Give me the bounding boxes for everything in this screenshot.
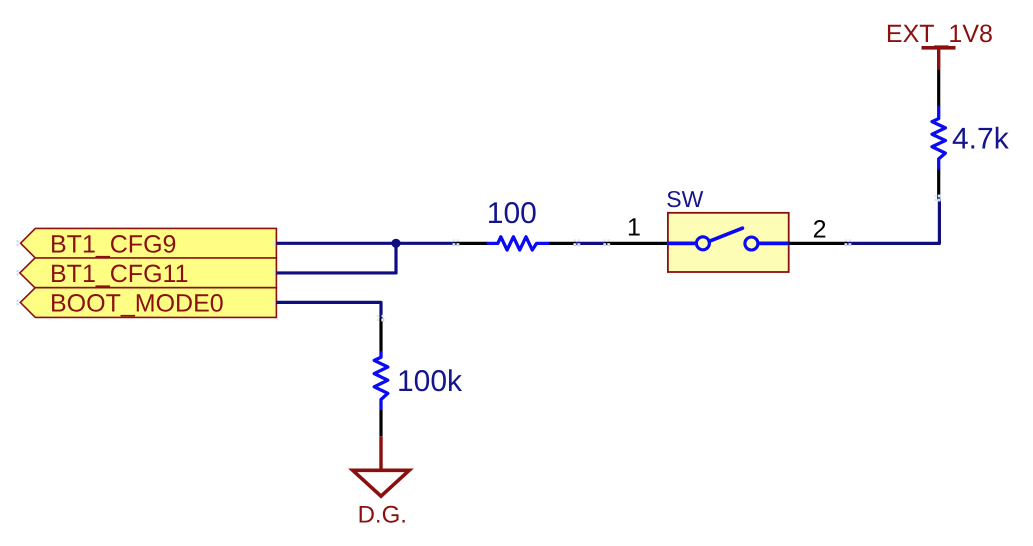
endpoint marker at BT1_CFG11 flag edge	[273, 270, 275, 276]
value label 4.7k	[952, 123, 1010, 156]
svg-text:BT1_CFG9: BT1_CFG9	[50, 230, 176, 258]
resistor R3 4.7k (pins)	[937, 69, 940, 199]
resistor R1 100 (zigzag body)	[488, 237, 548, 250]
wire R1 to SW pin 1	[576, 242, 605, 245]
value label 100	[487, 197, 537, 230]
resistor R2 100k (zigzag body)	[374, 353, 388, 409]
power net label EXT_1V8	[886, 20, 993, 48]
resistor R2 100k (pins)	[379, 318, 382, 436]
svg-text:1: 1	[627, 213, 641, 241]
net label flag BOOT_MODE0	[20, 288, 276, 318]
switch SW pin 2 stub	[789, 242, 848, 245]
resistor R3 4.7k (zigzag body)	[932, 107, 945, 168]
svg-text:BT1_CFG11: BT1_CFG11	[50, 260, 188, 288]
ground net label D.G.	[358, 501, 407, 528]
wire BOOT_MODE0 to R2	[276, 302, 381, 318]
endpoint marker at R2 pin 1 / wire	[377, 315, 384, 321]
switch SW contacts and lever	[668, 228, 789, 250]
resistor R1 100 (pins)	[454, 242, 576, 245]
svg-text:100: 100	[487, 197, 537, 230]
endpoint marker at BT1_CFG11 flag tip	[17, 270, 19, 276]
endpoint marker at R3 pin 2 / wire	[935, 195, 941, 201]
endpoint marker at SW pin 2 / wire	[845, 239, 851, 245]
ground symbol D.G. (stem and triangle)	[353, 436, 410, 496]
endpoint marker at BT1_CFG9 flag edge	[273, 240, 275, 246]
power symbol EXT_1V8 (bar and stem)	[922, 48, 956, 69]
wire BT1_CFG11 up to junction	[276, 243, 396, 273]
wire SW pin2 to R3	[848, 199, 939, 243]
switch SW pin 1 stub	[605, 242, 668, 245]
svg-text:D.G.: D.G.	[358, 501, 407, 528]
wire BT1_CFG9 to junction to R1	[276, 242, 454, 245]
net label flag BT1_CFG11	[20, 258, 277, 288]
reference label SW	[666, 186, 703, 212]
svg-text:2: 2	[813, 215, 827, 243]
svg-text:100k: 100k	[397, 365, 463, 398]
switch SW body box	[668, 213, 789, 272]
svg-text:BOOT_MODE0: BOOT_MODE0	[50, 290, 224, 318]
junction dot	[391, 239, 400, 248]
endpoint marker at BT1_CFG9 flag tip	[17, 240, 19, 246]
svg-text:4.7k: 4.7k	[952, 123, 1010, 156]
endpoint marker at BOOT_MODE0 flag edge	[273, 300, 275, 306]
svg-text:SW: SW	[666, 186, 703, 212]
net label flag BT1_CFG9	[21, 228, 277, 258]
endpoint marker at R1 pin 1 / wire	[453, 239, 459, 245]
endpoint marker at BOOT_MODE0 flag tip	[17, 300, 19, 306]
pin number 2	[813, 215, 827, 243]
value label 100k	[397, 365, 463, 398]
endpoint marker at R1 pin 2 / wire	[574, 239, 580, 245]
endpoint marker at SW pin 1 / wire	[604, 239, 610, 245]
svg-text:EXT_1V8: EXT_1V8	[886, 20, 993, 48]
pin number 1	[627, 213, 641, 241]
